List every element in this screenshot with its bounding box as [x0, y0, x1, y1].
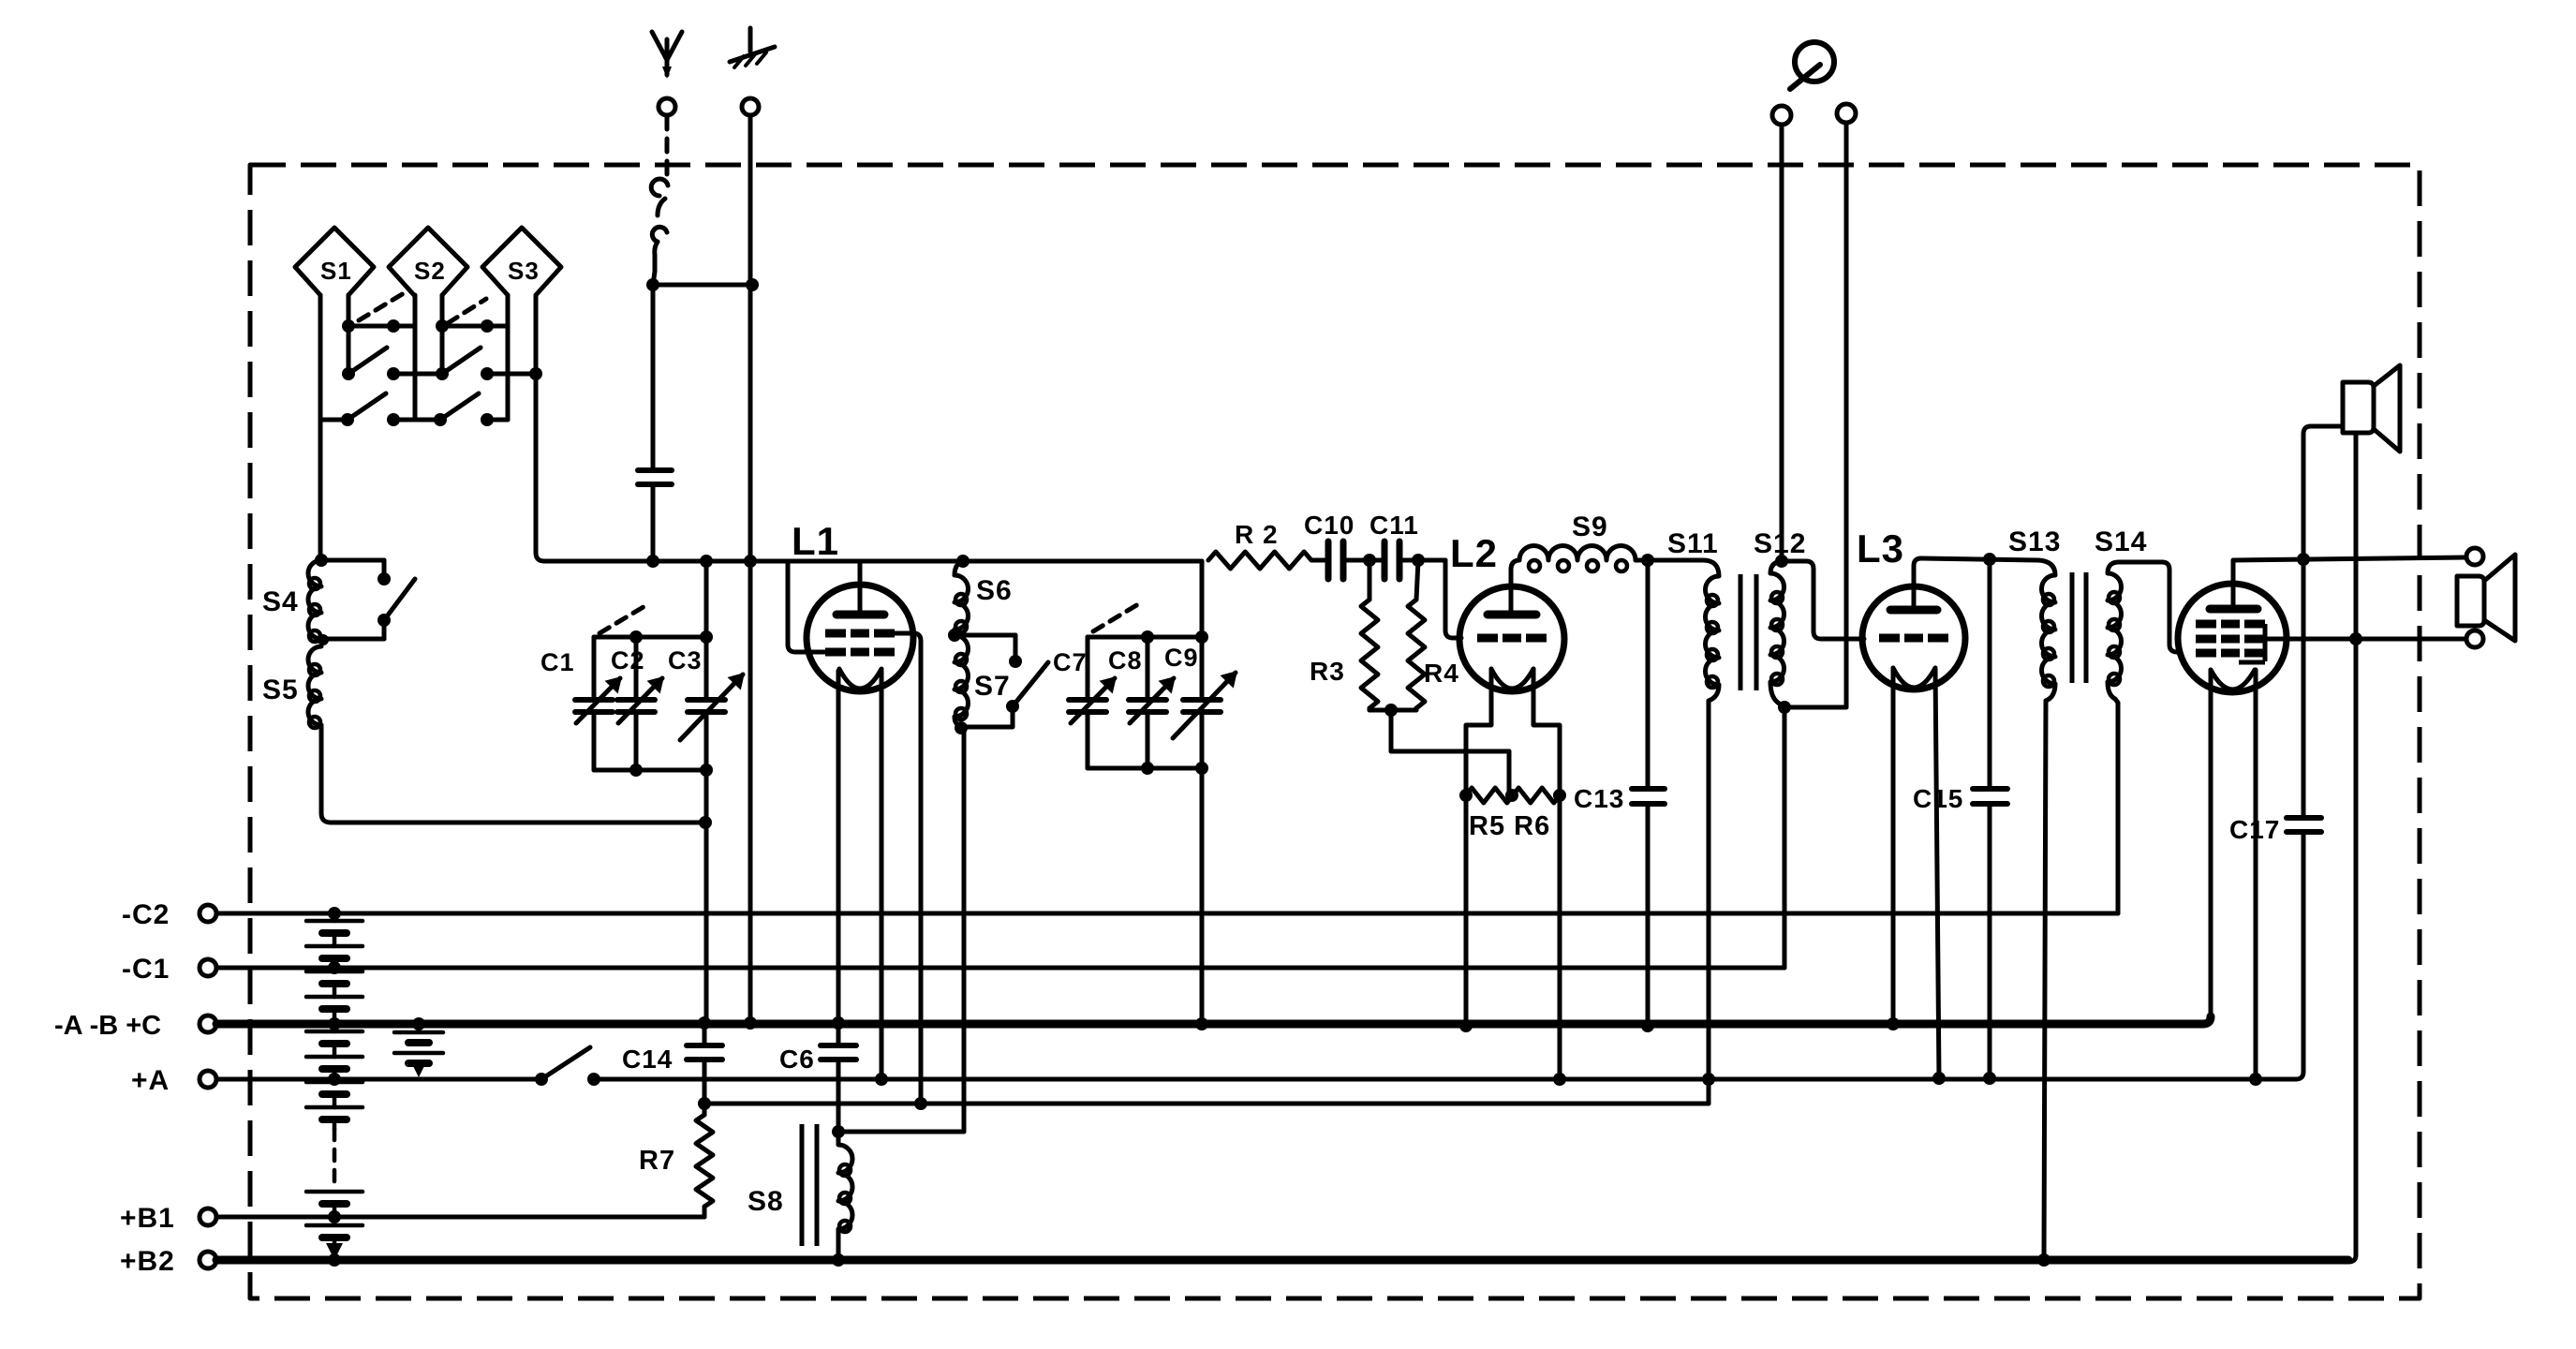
resistor R5 R6 [1466, 788, 1560, 803]
node L3 left to -A-B+C [1887, 1017, 1900, 1030]
node speaker riser [2349, 632, 2362, 645]
capacitor C3 [680, 637, 743, 770]
plug S3 diamond [482, 228, 561, 295]
L1 grid 2 left lead [788, 561, 825, 652]
node row3 [341, 413, 494, 426]
label L2 [1450, 531, 1498, 575]
node R3R4 junction [1384, 704, 1398, 717]
node +A switch left [535, 1073, 548, 1086]
svg-text:S3: S3 [508, 257, 540, 285]
transformer core S11-S12 [1740, 574, 1756, 690]
L2 filament [1491, 669, 1533, 689]
svg-text:+A: +A [131, 1065, 170, 1096]
node C15 riser top [1983, 553, 1996, 566]
label R3 [1310, 657, 1345, 686]
svg-text:S5: S5 [262, 674, 299, 705]
node R6 right [1553, 789, 1566, 802]
L4 grid row 2 [2196, 635, 2265, 644]
L1 filament right leg [880, 671, 884, 1079]
node C3 top [700, 630, 713, 644]
wire R3 R4 bottoms [1369, 708, 1416, 710]
S1 left leg [318, 295, 323, 420]
wire plate output line [2233, 557, 2466, 560]
node C17 riser top [2297, 553, 2310, 566]
label S13 [2008, 526, 2061, 557]
battery stack [306, 913, 363, 1260]
svg-text:S11: S11 [1667, 528, 1719, 559]
wire S7 bottom down [962, 727, 967, 1132]
coil S12 [1770, 561, 1784, 685]
node ground to grid bus [744, 555, 757, 568]
label S7 [974, 671, 1011, 702]
node C2 top [629, 630, 643, 644]
wire C15 down [1988, 806, 1992, 1078]
+A switch lever [541, 1047, 590, 1079]
transformer core S8 [802, 1124, 817, 1246]
label R4 [1424, 659, 1459, 688]
output terminal top [2466, 548, 2483, 565]
wire S1 leg to S4 [318, 420, 323, 560]
node S8 to +B2 [832, 1253, 845, 1267]
L1 grid row 1 [825, 630, 895, 638]
coil S9 [1519, 545, 1636, 571]
svg-text:S1: S1 [320, 257, 352, 285]
resistor R7 [696, 1104, 713, 1217]
wire S12 bottom to jack [1784, 705, 1846, 710]
L4 filament left leg [2209, 670, 2213, 1020]
label R7 [639, 1146, 675, 1176]
L3 filament right leg [1935, 668, 1939, 1078]
L4 top cap wire [2231, 560, 2236, 610]
node battery -C2 [328, 907, 341, 920]
label L3 [1857, 526, 1904, 571]
transformer core S13-S14 [2072, 572, 2086, 683]
capacitor C1 [575, 637, 620, 770]
svg-text:C15: C15 [1913, 784, 1963, 813]
svg-text:+B2: +B2 [120, 1246, 175, 1277]
switch row1 segment A [348, 324, 415, 329]
node battery +B1 [328, 1210, 341, 1223]
L1 filament left leg [836, 671, 841, 1023]
wire C-bank top bus [594, 635, 706, 640]
node R5R6 center tap [1505, 789, 1518, 802]
resistor R2 [1208, 552, 1311, 569]
svg-text:C14: C14 [622, 1045, 673, 1074]
label C17 [2229, 815, 2280, 844]
svg-text:L1: L1 [792, 519, 839, 563]
label C6 [779, 1045, 815, 1074]
jack right wire [1844, 123, 1849, 707]
capacitor C10 [1328, 541, 1343, 579]
L2 plate bar [1488, 611, 1536, 619]
plug S1 diamond [295, 228, 374, 295]
terminal +B2 [120, 1246, 216, 1277]
node S13 to +B2 [2037, 1253, 2050, 1267]
svg-text:C2: C2 [611, 646, 645, 674]
wire C3 riser down [704, 770, 709, 1023]
plug S2 diamond [389, 228, 467, 295]
label S9 [1572, 511, 1608, 542]
node C14 top [698, 1016, 711, 1030]
svg-text:S6: S6 [976, 575, 1013, 606]
L4 filament right leg [2254, 670, 2258, 1079]
node L1 filament right to +A [875, 1073, 888, 1086]
node C15 to +A [1983, 1072, 1996, 1085]
coil S13 [2038, 560, 2055, 687]
node S5 to C-bank riser [699, 816, 712, 829]
label S6 [976, 575, 1013, 606]
ground terminal [742, 98, 759, 115]
svg-text:S2: S2 [414, 257, 446, 285]
L2 top cap wire [1511, 560, 1518, 611]
switch row1 segment B [442, 324, 508, 329]
label S8 [748, 1186, 784, 1217]
S12 bottom lead [1770, 682, 1784, 707]
label C13 [1574, 784, 1624, 813]
node antenna-capacitor junction [646, 278, 659, 291]
capacitor C2 [617, 637, 662, 770]
switch lever row2-2 [442, 348, 481, 374]
terminal -C1 [122, 954, 216, 985]
svg-text:R7: R7 [639, 1146, 675, 1176]
node C9 top [1195, 630, 1208, 644]
capacitor C15 [1973, 789, 2007, 804]
wire L3 plate line [1921, 558, 2038, 560]
L1 filament [839, 669, 881, 689]
S6 tap junction [948, 629, 961, 642]
wire +A line left [216, 1077, 541, 1082]
label S14 [2095, 526, 2147, 557]
label C8 [1108, 646, 1143, 674]
node S9 output [1641, 554, 1654, 567]
capacitor C17 [2287, 818, 2321, 832]
svg-text:R4: R4 [1424, 659, 1459, 688]
wire speaker1 bottom down [2354, 433, 2359, 1255]
switch lever row2-1 [348, 348, 387, 374]
jack terminal left [1772, 106, 1791, 125]
L3 filament left leg [1891, 668, 1896, 1024]
svg-text:-C1: -C1 [122, 954, 170, 985]
wire C13 riser [1646, 560, 1651, 787]
L3 plate bar [1890, 606, 1937, 615]
L3 top cap wire [1914, 558, 1921, 610]
svg-text:S4: S4 [262, 586, 299, 617]
wire speaker riser to +B2 [2348, 1255, 2356, 1262]
label C15 [1913, 784, 1963, 813]
label C14 [622, 1045, 673, 1074]
wire C15 riser [1988, 559, 1992, 787]
node ground-line junction [746, 278, 759, 291]
S6 tap wire [955, 635, 1015, 656]
node row2 [342, 367, 542, 380]
S3 right leg [536, 295, 544, 561]
wire -C1 line [216, 966, 1784, 971]
L1 grid 1 right lead [895, 633, 921, 1104]
svg-text:C13: C13 [1574, 784, 1624, 813]
node R5 to -A-B+C [1459, 1019, 1473, 1032]
wire C7-bank top bus [1088, 635, 1202, 640]
jack terminal right [1837, 104, 1856, 123]
coil S4 [308, 560, 321, 642]
node C3 bottom [700, 763, 713, 777]
node S7 coil bottom [955, 721, 968, 734]
node C9 bottom [1195, 762, 1208, 775]
node L1 grid1 to R7 line [914, 1097, 927, 1110]
wire R6 right down [1558, 795, 1562, 1079]
node C3 riser on grid bus [700, 555, 713, 568]
svg-text:-A -B +C: -A -B +C [54, 1011, 161, 1041]
loudspeaker 2 [2457, 555, 2515, 641]
svg-text:L3: L3 [1857, 526, 1904, 571]
ground wire down [748, 116, 753, 1021]
node C2 bottom [629, 763, 643, 777]
coil S6 [955, 561, 969, 632]
svg-text:C17: C17 [2229, 815, 2280, 844]
node R3 top [1363, 554, 1376, 567]
node S6 top on grid bus [956, 555, 970, 568]
wire antenna branch to ground line [653, 283, 752, 288]
antenna symbol [652, 32, 682, 79]
antenna terminal [659, 98, 675, 115]
node ground to -A-B+C line [744, 1016, 757, 1030]
svg-text:C7: C7 [1053, 648, 1088, 676]
wire C10 to C11 [1347, 558, 1381, 563]
wire C9 riser top [1200, 561, 1205, 637]
wire capacitor to grid bus [651, 486, 656, 561]
switch row3 segment C [487, 418, 508, 422]
node S7 switch pivot [1006, 700, 1019, 713]
jack left wire [1780, 125, 1784, 561]
node R7 top [698, 1097, 711, 1110]
resistor R4 [1408, 560, 1425, 708]
node battery -A-B+C [328, 1017, 341, 1030]
label C7 [1053, 648, 1088, 676]
wire antenna branch down [651, 285, 656, 468]
S4 switch bottom wire [318, 623, 384, 645]
gang dashed link C1 [600, 605, 646, 633]
S2 right leg [440, 295, 445, 374]
node C6 top [832, 1016, 845, 1030]
svg-text:R3: R3 [1310, 657, 1345, 686]
wire S5 bottom [321, 725, 705, 823]
wire +B1 line [216, 1215, 704, 1220]
node battery -C1 [328, 961, 341, 974]
wire -A-B+C line [216, 1016, 2211, 1024]
terminal +A [131, 1065, 216, 1096]
wire C3 riser top [704, 561, 709, 637]
S14 bottom lead [2108, 682, 2118, 913]
S11 bottom lead [1709, 685, 1719, 1079]
switch lever row3-2 [440, 393, 479, 420]
svg-text:C11: C11 [1369, 511, 1419, 540]
node battery +B2 [328, 1253, 341, 1267]
L4 plate bar [2210, 605, 2258, 614]
wire C11 out [1403, 558, 1445, 563]
label S12 [1754, 528, 1806, 559]
L1 plate bar [836, 611, 884, 619]
wire +B2 line [216, 1256, 2348, 1265]
label C9 [1164, 644, 1199, 672]
node S4 switch top contact [378, 572, 391, 586]
S7 bottom wire to switch [955, 712, 1013, 727]
loudspeaker 1 [2343, 365, 2400, 452]
antenna series capacitor [638, 470, 672, 484]
wire S9 to S11 [1636, 558, 1703, 563]
label C2 [611, 646, 645, 674]
node C8 bottom [1141, 762, 1154, 775]
node battery +A [328, 1073, 341, 1086]
node R6 to +A [1553, 1073, 1566, 1086]
node C13 to -A-B+C [1641, 1019, 1654, 1032]
switch row2 segment A [393, 372, 442, 377]
ground symbol [730, 28, 775, 67]
L2 grid row [1477, 634, 1547, 643]
switch row3 segment B [393, 418, 440, 422]
node R4 top [1412, 554, 1425, 567]
node row1 [342, 319, 494, 333]
L4 filament [2211, 670, 2255, 689]
wire S7 to C6 node [838, 1130, 964, 1134]
node S12 top tee [1775, 555, 1788, 568]
svg-text:+B1: +B1 [120, 1203, 175, 1234]
capacitor C8 [1129, 637, 1174, 768]
coil S7 [955, 635, 969, 719]
node L1 filament left to -A-B+C [832, 1016, 845, 1030]
wire speaker1 left [2303, 426, 2343, 559]
switch row2 segment B [487, 372, 536, 377]
label R5 R6 [1469, 811, 1550, 841]
node S7 switch upper contact [1009, 655, 1022, 668]
wire S14 top to output grid [2119, 562, 2180, 652]
enclosure dashed border [250, 165, 2420, 1298]
gang dashed link 1 [359, 290, 408, 320]
antenna lead-in wire (dashed) [665, 116, 670, 184]
svg-text:S13: S13 [2008, 526, 2061, 557]
terminal -C2 [122, 899, 216, 930]
S1 right leg [347, 295, 351, 374]
switch lever row3-1 [348, 393, 386, 420]
terminal -A-B+C [54, 1011, 216, 1041]
wire S12 top to L3 grid [1782, 561, 1864, 639]
label C3 [668, 646, 703, 674]
L2 filament left leg [1466, 669, 1491, 792]
svg-text:-C2: -C2 [122, 899, 170, 930]
wire R5 left down [1464, 795, 1469, 1026]
L1 top cap wire [858, 561, 863, 611]
svg-text:C8: C8 [1108, 646, 1143, 674]
node L4 right to +A [2249, 1073, 2262, 1086]
svg-text:C3: C3 [668, 646, 703, 674]
svg-text:C1: C1 [540, 648, 575, 676]
svg-text:S8: S8 [748, 1186, 784, 1217]
coil S8 [838, 1132, 852, 1255]
wire R3R4 to R5R6 tap [1391, 710, 1509, 792]
capacitor C9 [1173, 637, 1236, 768]
node S11 to +A [1702, 1073, 1715, 1086]
resistor R3 [1361, 560, 1378, 708]
node C9 riser to -A-B+C [1195, 1017, 1208, 1030]
wire to L2 grid [1445, 560, 1461, 638]
L4 grid row 1 [2196, 620, 2265, 629]
capacitor C7 [1069, 637, 1115, 768]
label S11 [1667, 528, 1719, 559]
label S5 [262, 674, 299, 705]
tube L1 envelope [807, 585, 913, 691]
S7 switch lever [1013, 662, 1048, 706]
wire R7 top line [704, 1079, 1709, 1104]
node R5 left [1459, 789, 1473, 802]
S3 left leg [506, 295, 511, 420]
node S12 bottom [1778, 701, 1791, 714]
coil S14 [2108, 562, 2122, 685]
L2 filament right leg [1533, 669, 1560, 792]
node C8 top [1141, 630, 1154, 644]
svg-text:C6: C6 [779, 1045, 815, 1074]
wire C-bank bottom bus [594, 768, 706, 773]
capacitor C14 [687, 1024, 722, 1102]
wire C13 down [1646, 806, 1651, 1026]
wire C9 riser down [1200, 768, 1205, 1024]
label C11 [1369, 511, 1419, 540]
wire +A line [594, 1077, 2296, 1082]
S4 switch lever [384, 579, 415, 620]
L4 screen box [2239, 624, 2265, 662]
node S4 switch bottom contact [378, 614, 391, 627]
battery C [394, 1024, 443, 1077]
tube L2 envelope [1459, 586, 1564, 691]
node S4 top [315, 554, 328, 567]
svg-text:C9: C9 [1164, 644, 1199, 672]
wire C7-bank bottom bus [1088, 766, 1202, 771]
svg-text:S9: S9 [1572, 511, 1608, 542]
capacitor C13 [1632, 789, 1665, 804]
switch row3 segment A [320, 418, 348, 422]
S4 shorting switch top wire [321, 560, 384, 575]
wire R2 to C10 [1311, 558, 1325, 563]
label S4 [262, 586, 299, 617]
coil S5 [308, 646, 321, 728]
wire -C2 line [216, 912, 2118, 916]
L1 grid row 2 [825, 648, 895, 657]
label C10 [1304, 511, 1355, 540]
S13 bottom lead [2044, 684, 2055, 1260]
label C1 [540, 648, 575, 676]
L3 filament [1893, 668, 1935, 688]
svg-text:S7: S7 [974, 671, 1011, 702]
label R2 [1235, 520, 1279, 549]
output terminal bottom [2466, 630, 2483, 647]
L4 grid2 right lead [2251, 637, 2286, 642]
tube L3 envelope [1862, 586, 1965, 689]
node capacitor-bus junction [646, 555, 659, 568]
L3 grid row [1879, 634, 1948, 643]
node +A switch right [587, 1073, 600, 1086]
coil S11 [1703, 560, 1719, 688]
capacitor C11 [1384, 541, 1399, 579]
capacitor C6 [821, 1024, 856, 1130]
svg-text:R 2: R 2 [1235, 520, 1279, 549]
label L1 [792, 519, 839, 563]
antenna switch contact hooks [651, 179, 668, 285]
tube L4 envelope [2178, 584, 2287, 692]
node battery C top [412, 1017, 425, 1030]
terminal +B1 [120, 1203, 216, 1234]
svg-text:C10: C10 [1304, 511, 1355, 540]
phone plug symbol [1790, 42, 1834, 89]
node L3 right to +A [1932, 1072, 1946, 1085]
svg-text:R5 R6: R5 R6 [1469, 811, 1550, 841]
node C6 to S8 junction [832, 1125, 845, 1138]
